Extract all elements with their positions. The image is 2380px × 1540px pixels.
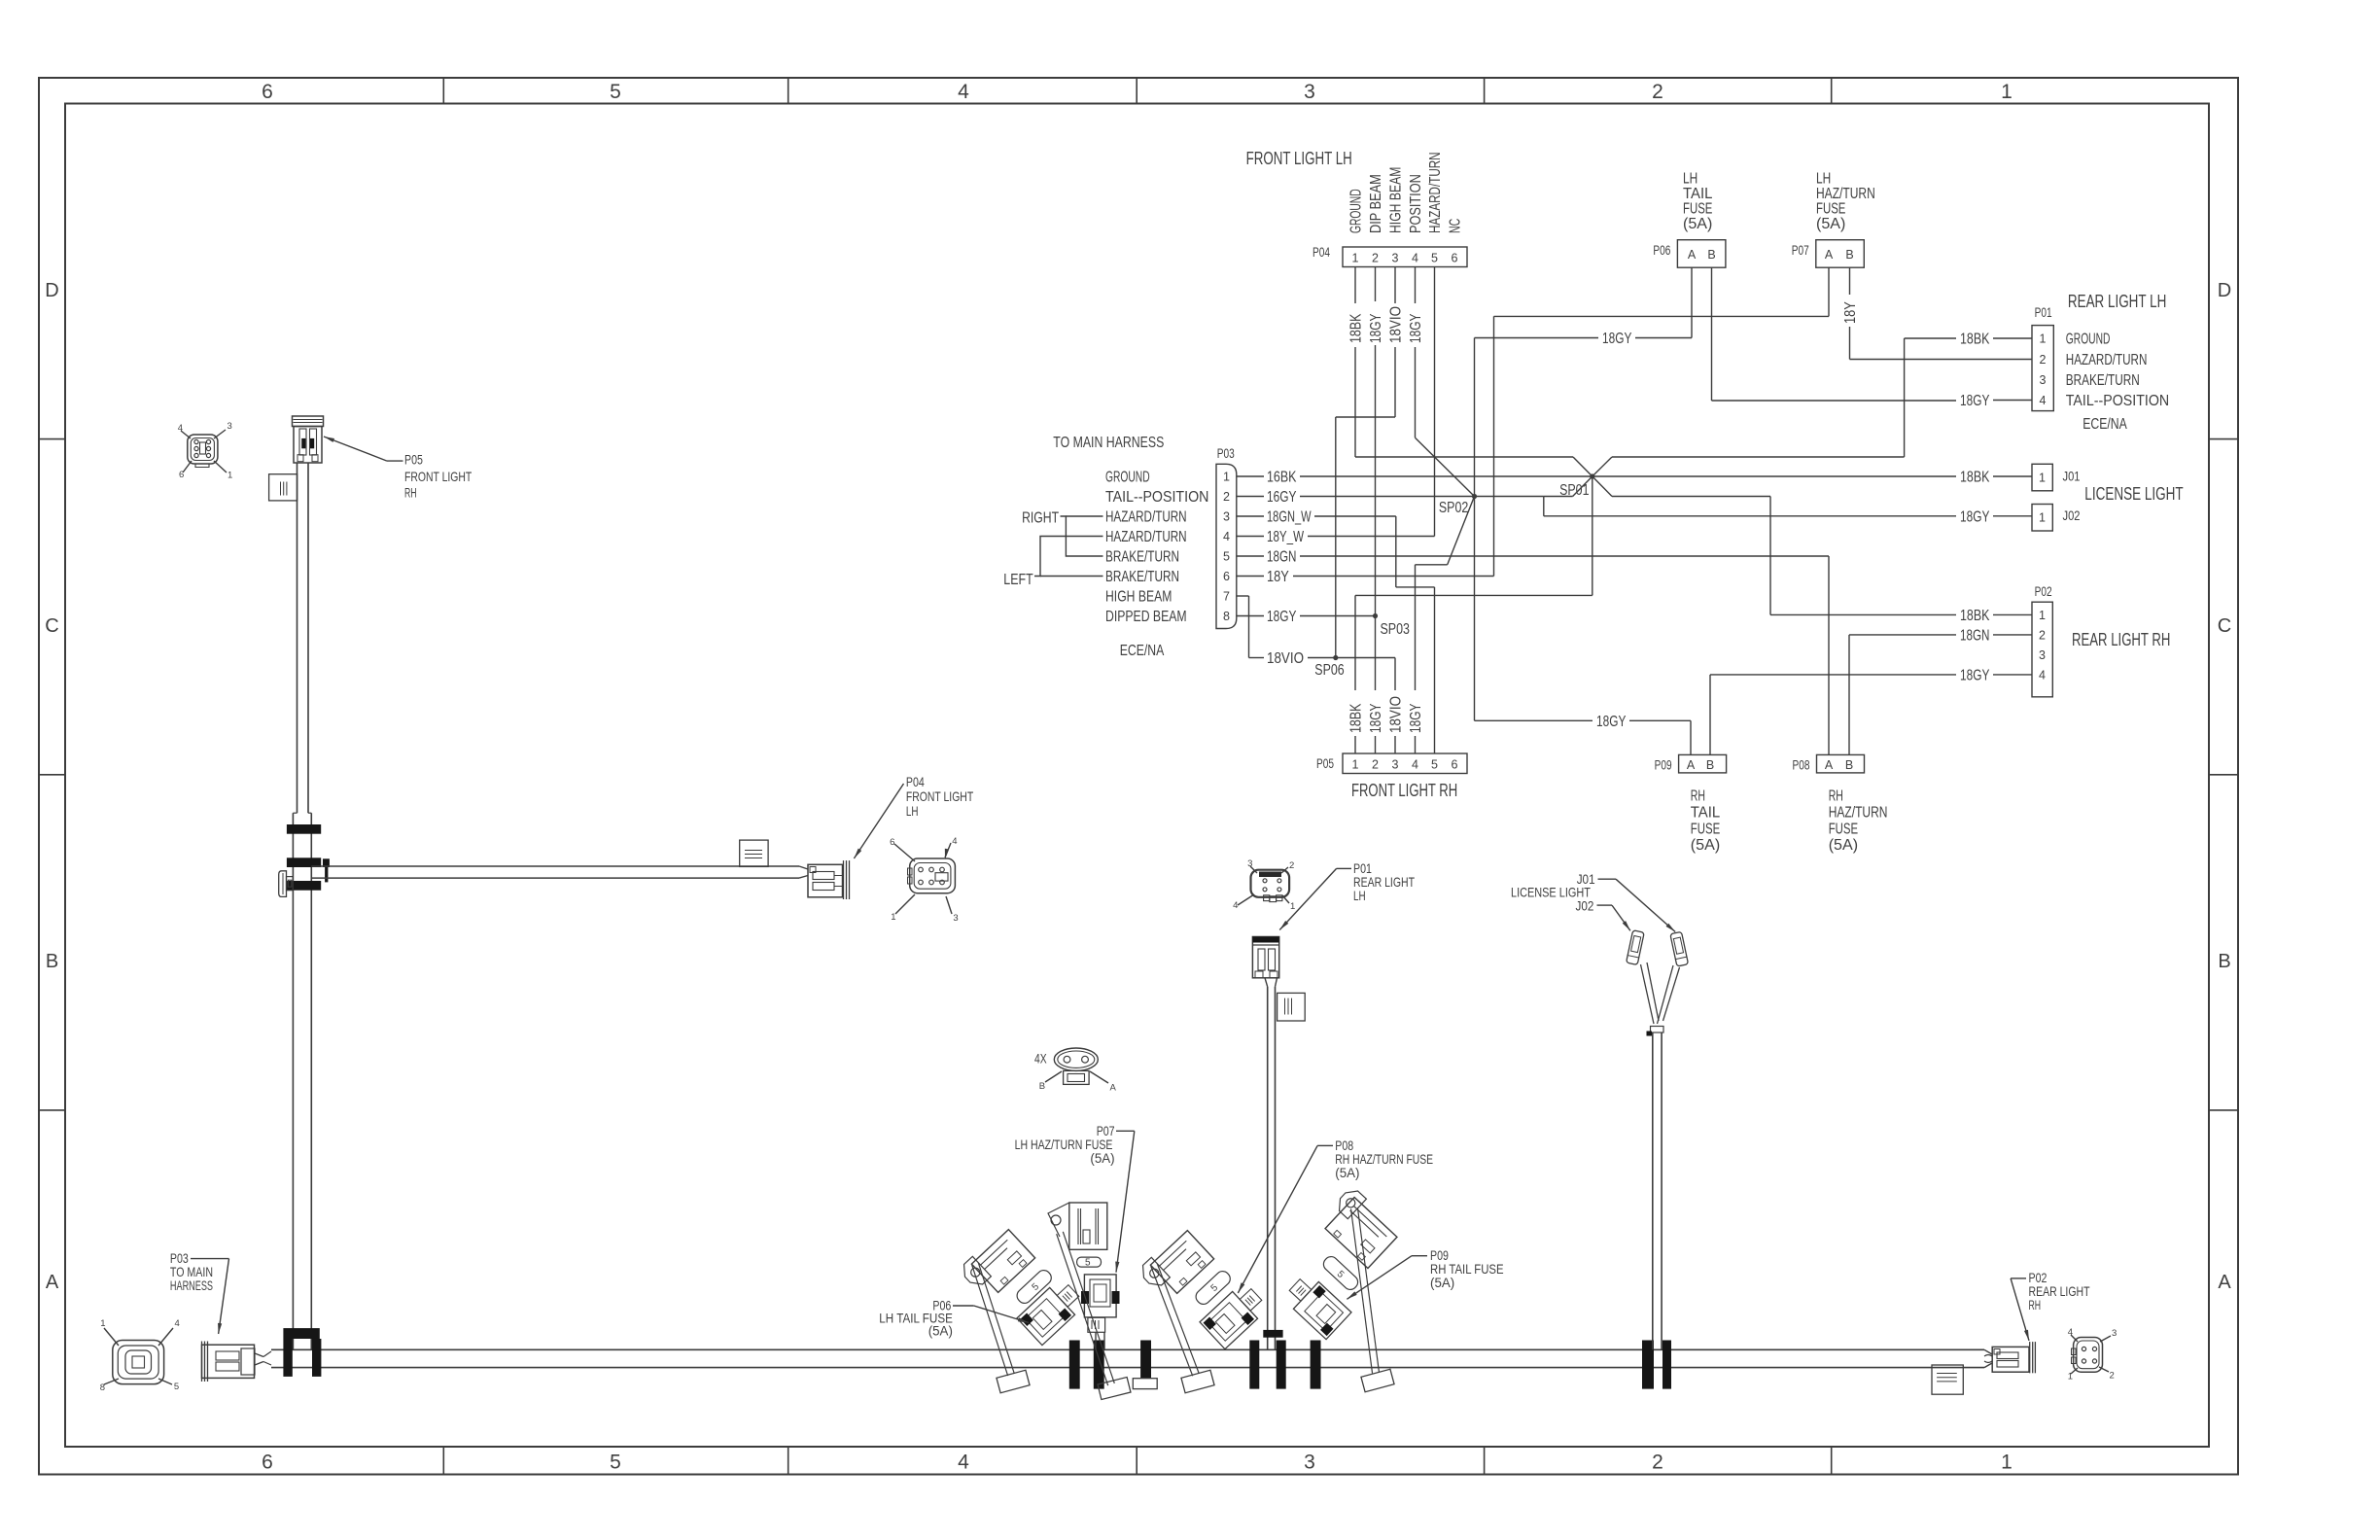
svg-text:SP01: SP01	[1559, 482, 1589, 499]
svg-text:B: B	[1039, 1081, 1045, 1092]
svg-text:RH: RH	[1691, 788, 1705, 805]
svg-text:1: 1	[1290, 901, 1295, 912]
svg-text:NC: NC	[1448, 219, 1464, 233]
svg-text:FUSE: FUSE	[1691, 821, 1720, 837]
svg-text:P05: P05	[1316, 756, 1334, 771]
svg-text:HIGH BEAM: HIGH BEAM	[1105, 589, 1172, 606]
svg-text:3: 3	[1304, 1452, 1315, 1474]
svg-text:RIGHT: RIGHT	[1022, 510, 1059, 527]
svg-text:3: 3	[2039, 648, 2046, 662]
svg-text:18VIO: 18VIO	[1388, 306, 1405, 343]
svg-text:BRAKE/TURN: BRAKE/TURN	[2066, 372, 2140, 389]
svg-text:18Y: 18Y	[1842, 301, 1859, 324]
svg-text:B: B	[46, 951, 58, 972]
svg-text:LH: LH	[1816, 171, 1831, 188]
svg-text:P04: P04	[906, 774, 925, 789]
svg-text:A: A	[1687, 758, 1696, 772]
svg-text:REAR LIGHT RH: REAR LIGHT RH	[2072, 630, 2170, 649]
svg-text:4: 4	[1233, 900, 1238, 911]
svg-text:FRONT LIGHT LH: FRONT LIGHT LH	[1246, 149, 1352, 168]
svg-text:5: 5	[1431, 252, 1438, 265]
svg-text:18GY: 18GY	[1596, 714, 1627, 730]
svg-text:18Y: 18Y	[1267, 569, 1289, 585]
svg-text:HIGH BEAM: HIGH BEAM	[1388, 167, 1405, 233]
svg-text:P05: P05	[404, 451, 423, 467]
svg-text:18GY: 18GY	[1368, 313, 1384, 343]
svg-text:LEFT: LEFT	[1003, 572, 1033, 588]
svg-text:RH: RH	[2029, 1297, 2042, 1312]
svg-text:18BK: 18BK	[1960, 470, 1990, 486]
svg-text:18GY: 18GY	[1960, 393, 1990, 409]
svg-text:B: B	[1845, 248, 1853, 262]
svg-text:P04: P04	[1312, 245, 1330, 260]
svg-text:18GN_W: 18GN_W	[1267, 509, 1312, 526]
svg-text:(5A): (5A)	[1829, 837, 1858, 854]
svg-text:4: 4	[1412, 758, 1418, 772]
svg-text:ECE/NA: ECE/NA	[2082, 416, 2127, 433]
svg-text:J02: J02	[2063, 508, 2081, 523]
svg-text:18GY: 18GY	[1960, 508, 1990, 525]
svg-text:18VIO: 18VIO	[1267, 650, 1304, 667]
svg-text:LICENSE LIGHT: LICENSE LIGHT	[2084, 484, 2183, 504]
svg-text:P07: P07	[1792, 243, 1809, 258]
svg-text:1: 1	[2039, 472, 2046, 485]
svg-text:18BK: 18BK	[1960, 332, 1990, 348]
svg-text:D: D	[2218, 280, 2231, 301]
svg-text:B: B	[1706, 758, 1714, 772]
svg-text:P01: P01	[2035, 305, 2052, 320]
svg-text:SP02: SP02	[1439, 500, 1468, 516]
svg-text:1: 1	[2039, 511, 2046, 525]
svg-text:GROUND: GROUND	[1105, 470, 1150, 486]
svg-text:RH: RH	[404, 485, 417, 501]
svg-text:A: A	[2218, 1272, 2231, 1293]
svg-text:SP06: SP06	[1314, 662, 1344, 679]
svg-text:4: 4	[952, 836, 957, 847]
svg-text:1: 1	[1352, 758, 1359, 772]
svg-text:4: 4	[175, 1318, 180, 1329]
svg-text:P08: P08	[1793, 758, 1810, 773]
svg-text:A: A	[1825, 758, 1834, 772]
svg-text:A: A	[46, 1272, 59, 1293]
svg-text:A: A	[1825, 248, 1834, 262]
svg-text:(5A): (5A)	[928, 1323, 953, 1339]
svg-text:FRONT LIGHT: FRONT LIGHT	[906, 788, 974, 804]
svg-text:6: 6	[890, 837, 894, 848]
svg-text:3: 3	[2112, 1328, 2117, 1339]
svg-text:P09: P09	[1655, 758, 1672, 773]
svg-text:LH: LH	[1353, 888, 1366, 903]
svg-text:6: 6	[1223, 570, 1230, 583]
svg-text:1: 1	[100, 1318, 105, 1329]
svg-text:3: 3	[2040, 373, 2047, 387]
svg-text:2: 2	[1372, 758, 1379, 772]
svg-text:HAZ/TURN: HAZ/TURN	[1829, 805, 1888, 822]
svg-text:TAIL: TAIL	[1691, 805, 1720, 822]
svg-text:5: 5	[610, 81, 621, 103]
svg-text:FUSE: FUSE	[1829, 821, 1858, 837]
svg-text:LH: LH	[1683, 171, 1697, 188]
svg-text:P02: P02	[2035, 584, 2052, 599]
svg-text:D: D	[45, 280, 58, 301]
svg-text:(5A): (5A)	[1816, 216, 1845, 232]
svg-text:GROUND: GROUND	[2066, 332, 2111, 348]
svg-text:POSITION: POSITION	[1408, 174, 1424, 233]
svg-text:18GY: 18GY	[1267, 609, 1297, 625]
svg-text:6: 6	[262, 81, 273, 103]
svg-text:FUSE: FUSE	[1683, 201, 1712, 218]
svg-text:5: 5	[1223, 550, 1230, 564]
svg-text:4: 4	[1412, 252, 1418, 265]
svg-text:2: 2	[1372, 252, 1379, 265]
svg-text:(5A): (5A)	[1090, 1150, 1114, 1166]
svg-text:DIPPED BEAM: DIPPED BEAM	[1105, 609, 1187, 625]
svg-text:4: 4	[2039, 668, 2046, 682]
svg-text:LH: LH	[906, 803, 919, 819]
svg-text:18GY: 18GY	[1408, 313, 1424, 343]
svg-text:(5A): (5A)	[1430, 1275, 1454, 1290]
svg-text:18GY: 18GY	[1960, 667, 1990, 683]
svg-text:HAZARD/TURN: HAZARD/TURN	[1427, 152, 1444, 233]
svg-text:18BK: 18BK	[1348, 313, 1365, 343]
svg-text:FUSE: FUSE	[1816, 201, 1845, 218]
svg-text:(5A): (5A)	[1335, 1165, 1359, 1180]
svg-text:4: 4	[958, 1452, 969, 1474]
svg-text:P06: P06	[1653, 243, 1670, 258]
svg-text:1: 1	[2039, 609, 2046, 622]
svg-text:6: 6	[262, 1452, 273, 1474]
svg-text:2: 2	[1652, 1452, 1663, 1474]
svg-text:18GY: 18GY	[1408, 703, 1424, 733]
svg-text:3: 3	[953, 913, 958, 924]
svg-text:1: 1	[2040, 332, 2047, 346]
svg-text:18GN: 18GN	[1267, 549, 1296, 566]
svg-text:4: 4	[1223, 530, 1230, 543]
svg-text:HAZARD/TURN: HAZARD/TURN	[2066, 352, 2148, 368]
svg-text:6: 6	[1452, 252, 1458, 265]
svg-text:18Y_W: 18Y_W	[1267, 529, 1305, 545]
svg-text:A: A	[1110, 1083, 1117, 1094]
svg-text:FRONT LIGHT RH: FRONT LIGHT RH	[1351, 781, 1457, 800]
svg-text:16GY: 16GY	[1267, 489, 1297, 506]
svg-text:DIP BEAM: DIP BEAM	[1368, 174, 1384, 233]
svg-text:3: 3	[1392, 758, 1399, 772]
svg-text:18BK: 18BK	[1960, 608, 1990, 624]
svg-text:1: 1	[2001, 1452, 2012, 1474]
svg-text:5: 5	[174, 1382, 179, 1392]
svg-text:GROUND: GROUND	[1348, 189, 1365, 233]
svg-text:8: 8	[1223, 610, 1230, 623]
svg-text:18GY: 18GY	[1602, 331, 1632, 347]
svg-text:(5A): (5A)	[1691, 837, 1720, 854]
svg-text:3: 3	[1392, 252, 1399, 265]
svg-text:3: 3	[1223, 510, 1230, 524]
svg-text:18VIO: 18VIO	[1388, 696, 1405, 733]
svg-text:2: 2	[2039, 628, 2046, 642]
svg-text:18GY: 18GY	[1368, 703, 1384, 733]
svg-text:4: 4	[958, 81, 969, 103]
svg-text:5: 5	[1431, 758, 1438, 772]
svg-text:A: A	[1688, 248, 1697, 262]
svg-text:RH: RH	[1829, 788, 1843, 805]
svg-text:REAR LIGHT LH: REAR LIGHT LH	[2068, 292, 2166, 311]
svg-text:5: 5	[610, 1452, 621, 1474]
svg-text:TAIL--POSITION: TAIL--POSITION	[1105, 489, 1208, 506]
svg-text:1: 1	[1352, 252, 1359, 265]
svg-text:C: C	[45, 615, 58, 637]
svg-text:HAZARD/TURN: HAZARD/TURN	[1105, 529, 1187, 545]
svg-text:6: 6	[1452, 758, 1458, 772]
svg-text:1: 1	[227, 471, 232, 481]
svg-text:J01: J01	[2063, 470, 2081, 484]
svg-text:2: 2	[2040, 353, 2047, 367]
svg-text:18BK: 18BK	[1348, 703, 1365, 733]
svg-text:5: 5	[1085, 1258, 1091, 1269]
svg-text:4: 4	[2040, 394, 2047, 407]
svg-text:3: 3	[227, 421, 232, 432]
svg-text:BRAKE/TURN: BRAKE/TURN	[1105, 549, 1179, 566]
svg-text:SP03: SP03	[1381, 621, 1410, 638]
svg-text:1: 1	[1223, 471, 1230, 484]
svg-text:4X: 4X	[1034, 1051, 1047, 1067]
svg-text:3: 3	[1304, 81, 1315, 103]
svg-text:B: B	[1845, 758, 1853, 772]
svg-text:2: 2	[1223, 490, 1230, 504]
svg-text:HARNESS: HARNESS	[170, 1277, 213, 1293]
svg-text:B: B	[1707, 248, 1715, 262]
svg-text:TO MAIN HARNESS: TO MAIN HARNESS	[1053, 435, 1164, 451]
svg-text:B: B	[2218, 951, 2230, 972]
svg-text:BRAKE/TURN: BRAKE/TURN	[1105, 569, 1179, 585]
svg-text:HAZARD/TURN: HAZARD/TURN	[1105, 509, 1187, 526]
svg-text:C: C	[2218, 615, 2231, 637]
svg-text:TAIL: TAIL	[1683, 186, 1712, 202]
svg-text:16BK: 16BK	[1267, 470, 1297, 486]
svg-text:ECE/NA: ECE/NA	[1120, 643, 1165, 659]
svg-text:2: 2	[1652, 81, 1663, 103]
svg-text:J02: J02	[1576, 897, 1594, 913]
svg-text:1: 1	[2001, 81, 2012, 103]
svg-text:2: 2	[2110, 1371, 2115, 1382]
svg-text:FRONT LIGHT: FRONT LIGHT	[404, 469, 472, 484]
svg-text:2: 2	[1289, 860, 1294, 871]
svg-text:18GN: 18GN	[1960, 627, 1989, 644]
svg-text:HAZ/TURN: HAZ/TURN	[1816, 186, 1875, 202]
svg-text:P03: P03	[1217, 446, 1235, 461]
svg-text:(5A): (5A)	[1683, 216, 1712, 232]
svg-text:7: 7	[1223, 590, 1230, 604]
svg-text:TAIL--POSITION: TAIL--POSITION	[2066, 393, 2169, 409]
